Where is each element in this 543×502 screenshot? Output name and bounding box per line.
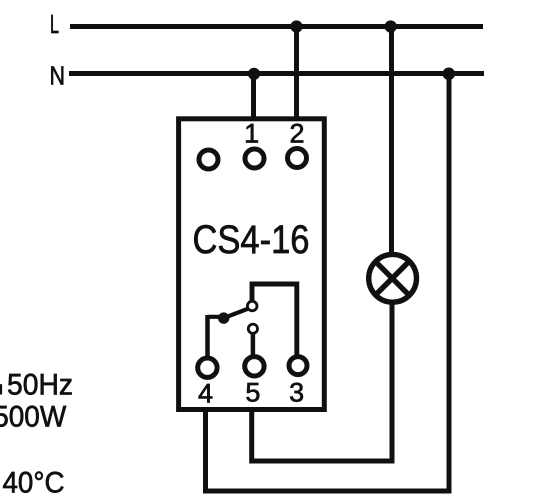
svg-text:40°C: 40°C bbox=[3, 467, 65, 500]
svg-text:5: 5 bbox=[245, 378, 260, 408]
svg-text:3: 3 bbox=[289, 378, 304, 408]
svg-text:50Hz: 50Hz bbox=[7, 369, 73, 402]
svg-text:500W: 500W bbox=[0, 401, 67, 434]
svg-text:CS4-16: CS4-16 bbox=[193, 218, 310, 262]
svg-text:1: 1 bbox=[244, 119, 259, 149]
svg-text:L: L bbox=[50, 9, 59, 39]
svg-text:N: N bbox=[50, 60, 66, 90]
svg-text:4: 4 bbox=[198, 378, 213, 408]
svg-text:2: 2 bbox=[289, 119, 304, 149]
